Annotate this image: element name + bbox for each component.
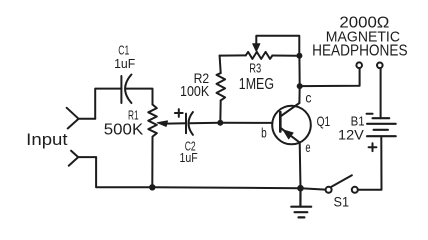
- wire right headphone terminal to battery top: [380, 68, 382, 118]
- svg-text:1uF: 1uF: [180, 150, 198, 165]
- svg-text:Q1: Q1: [317, 113, 331, 129]
- svg-text:1MEG: 1MEG: [239, 76, 274, 93]
- wire emitter vertical down to ground rail: [299, 143, 302, 189]
- capacitor C1: [121, 75, 131, 104]
- svg-text:e: e: [305, 139, 310, 155]
- svg-text:c: c: [305, 90, 311, 106]
- svg-text:12V: 12V: [338, 127, 365, 143]
- wire R2 top to R3 left: [220, 54, 246, 56]
- switch S1: [326, 175, 358, 193]
- wire collector vertical: [298, 86, 300, 103]
- node: junction dot R1/bottom rail: [149, 184, 155, 190]
- node: junction dot emitter/ground rail: [297, 185, 304, 192]
- svg-text:S1: S1: [334, 194, 350, 209]
- svg-text:100K: 100K: [180, 83, 209, 100]
- headphone terminal right: [377, 63, 383, 69]
- resistor R1 (500K potentiometer): [148, 105, 186, 140]
- jack J1 (top input jack): [67, 108, 96, 129]
- wire jack J2 down and bottom ground rail: [96, 157, 325, 190]
- wire from jack J1 up to top rail: [95, 89, 121, 119]
- svg-text:500K: 500K: [104, 122, 144, 139]
- wire from C1 to top of R1: [126, 89, 152, 105]
- node: junction dot collector branch: [297, 83, 303, 89]
- svg-text:R1: R1: [128, 107, 139, 122]
- battery plus sign: [369, 143, 377, 151]
- wire R1 bottom to ground rail: [151, 139, 153, 187]
- jack J2 (bottom input jack): [69, 151, 96, 166]
- transistor Q1: [272, 103, 311, 144]
- battery B1: [367, 118, 396, 136]
- svg-text:b: b: [261, 125, 267, 141]
- battery minus sign: [367, 113, 373, 115]
- node: junction dot C2/R2/base: [217, 120, 223, 126]
- ground symbol: [291, 188, 311, 217]
- svg-text:Input: Input: [26, 130, 68, 149]
- wire battery bottom to switch right contact: [358, 136, 382, 190]
- wire node R3 down to collector node: [298, 56, 300, 86]
- plus sign near C2: [175, 109, 183, 117]
- svg-text:HEADPHONES: HEADPHONES: [312, 43, 408, 60]
- resistor R3 (1MEG rheostat): [246, 52, 297, 59]
- wire C2 to base node and transistor base: [190, 122, 273, 125]
- headphone terminal left: [356, 62, 362, 68]
- svg-text:1uF: 1uF: [114, 56, 135, 71]
- wire collector node to left headphone terminal: [300, 68, 360, 86]
- R3 wiper arrow and bypass loop: [253, 36, 300, 53]
- capacitor C2 (1uF, polarized): [186, 112, 193, 135]
- node: junction dot R3 right: [296, 53, 302, 59]
- svg-text:R3: R3: [249, 61, 261, 75]
- resistor R2 (100K): [217, 56, 226, 123]
